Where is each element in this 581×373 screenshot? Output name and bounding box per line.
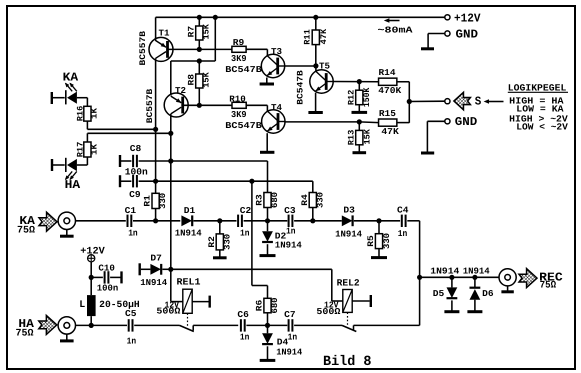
ground R2 (219, 250, 221, 258)
ground REC jack (507, 286, 509, 292)
capacitor C2 1n (237, 215, 239, 227)
jack REC (499, 269, 516, 286)
capacitor C5 1n (128, 319, 130, 331)
svg-text:R1: R1 (143, 195, 153, 207)
ground KA jack (66, 230, 68, 237)
wire R10 to T4 (246, 104, 267, 106)
svg-text:BC557B: BC557B (138, 31, 148, 65)
svg-text:R14: R14 (379, 68, 397, 78)
diode D7 1N914 (138, 263, 140, 275)
svg-text:R15: R15 (379, 109, 396, 119)
transistor T2 BC557B (170, 61, 172, 96)
svg-text:1n: 1n (240, 333, 250, 343)
svg-text:75Ω: 75Ω (17, 226, 35, 237)
svg-text:680: 680 (270, 192, 280, 208)
svg-text:1N914: 1N914 (463, 267, 491, 277)
resistor R4 330 (312, 181, 314, 192)
resistor R12 150K (358, 82, 360, 91)
svg-text:~80mA: ~80mA (378, 25, 414, 35)
wire T2 collector (170, 114, 172, 269)
svg-text:1n: 1n (127, 336, 137, 346)
svg-text:D6: D6 (482, 289, 494, 299)
wire L to HA line (90, 316, 92, 325)
wire T2 base (183, 104, 199, 106)
node L-HA (89, 323, 94, 328)
node D7-T2c (168, 267, 173, 272)
svg-text:R10: R10 (229, 94, 246, 104)
LED KA emission arrows (66, 83, 73, 91)
node R8 top (197, 58, 202, 63)
wire R9 to T3 (246, 48, 267, 50)
svg-text:1K: 1K (90, 107, 100, 119)
relay REL1 coil (170, 269, 172, 301)
svg-text:500Ω: 500Ω (156, 307, 181, 317)
resistor R13 15K (358, 122, 360, 130)
svg-text:R17: R17 (76, 142, 86, 158)
capacitor C3 1n (288, 215, 290, 227)
wire C4 to REC node (407, 220, 419, 222)
jack KA (58, 212, 75, 229)
resistor R8 15K (198, 61, 200, 74)
resistor R5 330 (378, 221, 380, 234)
wire REC line (420, 276, 499, 278)
wire bias drop (214, 17, 216, 61)
svg-text:+12V: +12V (454, 11, 481, 25)
ground GND-top (421, 47, 434, 50)
svg-text:C4: C4 (397, 206, 409, 216)
wire KA line (76, 220, 126, 222)
wire R14 right (359, 81, 378, 83)
ground R5 (378, 249, 380, 258)
wire to S terminal (409, 100, 445, 102)
svg-text:REL1: REL1 (177, 277, 201, 288)
svg-text:1n: 1n (240, 228, 250, 238)
relay REL2 coil (331, 269, 333, 301)
resistor R15 47K (379, 119, 397, 126)
capacitor C4 1n (401, 215, 403, 227)
wire T5 collector (333, 81, 359, 83)
svg-text:75Ω: 75Ω (16, 329, 34, 340)
svg-text:3K9: 3K9 (231, 110, 247, 120)
resistor R3 680 (267, 161, 269, 193)
svg-text:1n: 1n (288, 333, 298, 343)
svg-text:100n: 100n (97, 284, 119, 294)
svg-text:1N914: 1N914 (175, 228, 203, 238)
ground R12 (358, 105, 360, 113)
ground D5 (451, 300, 453, 311)
svg-text:47K: 47K (381, 127, 399, 137)
svg-text:R7: R7 (187, 26, 197, 37)
svg-text:1n: 1n (398, 229, 408, 239)
ground R13 (358, 145, 360, 153)
svg-text:BC557B: BC557B (145, 89, 155, 124)
svg-text:C10: C10 (98, 264, 115, 274)
svg-text:150K: 150K (362, 87, 372, 107)
svg-text:15K: 15K (202, 23, 212, 39)
LED HA (51, 159, 53, 171)
wire R16 to T1 collector (86, 121, 88, 129)
svg-text:T5: T5 (319, 62, 330, 72)
node S (407, 99, 412, 104)
resistor R10 3K9 (232, 102, 246, 108)
current arrow ~80mA (389, 20, 400, 22)
svg-text:GND: GND (456, 28, 479, 42)
svg-text:BC547B: BC547B (295, 70, 305, 105)
svg-text:R2: R2 (207, 236, 217, 248)
svg-text:R9: R9 (233, 38, 245, 48)
node C3-R4 (310, 218, 315, 223)
node rail-R7 (197, 15, 202, 20)
node T2-base (197, 103, 202, 108)
wire R17 to T2 collector (86, 133, 88, 142)
node T4-R13 (357, 119, 362, 124)
wire REL1 coil right (192, 301, 208, 303)
wire LED HA to R17 (77, 164, 88, 166)
svg-text:R11: R11 (302, 29, 312, 45)
wire T4 collector (285, 121, 359, 123)
svg-text:C9: C9 (129, 190, 141, 200)
REL2 switch contact (342, 325, 356, 331)
svg-text:C1: C1 (125, 206, 137, 216)
svg-text:D5: D5 (433, 289, 445, 299)
diode D2 1N914 (267, 221, 269, 231)
svg-text:15K: 15K (202, 71, 212, 87)
ground T5 (315, 93, 317, 113)
resistor R17 1K (84, 142, 91, 157)
svg-text:C7: C7 (284, 310, 296, 320)
svg-text:330: 330 (158, 193, 168, 209)
resistor R6 680 (251, 181, 253, 285)
resistor R9 3K9 (232, 46, 246, 52)
svg-text:R16: R16 (76, 106, 86, 122)
wire relay feed (171, 268, 332, 270)
wire +12V to L (90, 262, 92, 295)
node C2-R3-D2 (265, 218, 270, 223)
connector arrow S (454, 92, 471, 110)
svg-text:Bild 8: Bild 8 (323, 354, 372, 370)
wire C5 to REL1 contact (134, 324, 179, 326)
transistor T1 BC557B (155, 17, 157, 41)
terminal S (445, 99, 450, 104)
wire T1 base (168, 48, 232, 50)
wire HA line left (76, 324, 128, 326)
ground GND-mid (421, 152, 434, 155)
wire T1 collector (155, 58, 157, 193)
node R12-R14 (357, 79, 362, 84)
jack HA (58, 317, 75, 334)
svg-text:HA: HA (65, 178, 81, 192)
transistor T5 BC547B (315, 66, 317, 72)
svg-text:C3: C3 (284, 206, 296, 216)
REL1 switch contact (180, 325, 194, 331)
svg-text:1n: 1n (286, 227, 296, 237)
svg-text:T4: T4 (271, 103, 283, 113)
svg-text:47K: 47K (319, 28, 329, 44)
svg-text:330: 330 (223, 234, 233, 250)
terminal GND top (445, 31, 450, 36)
wire GND mid (427, 120, 444, 122)
svg-text:500Ω: 500Ω (316, 307, 341, 317)
svg-text:R6: R6 (255, 300, 265, 312)
node T1-base (197, 47, 202, 52)
connector arrow REC (519, 269, 537, 288)
svg-text:R13: R13 (347, 130, 357, 146)
ground HA jack (66, 334, 68, 341)
svg-text:LOGIKPEGEL: LOGIKPEGEL (508, 82, 567, 93)
REL1 contact actuator dotted (187, 313, 189, 326)
capacitor C6 1n (240, 319, 242, 331)
node rail-bias (213, 15, 218, 20)
wire LED KA to R16 (77, 97, 88, 99)
resistor R14 470K (379, 78, 397, 85)
svg-text:L: L (79, 300, 85, 311)
svg-text:GND: GND (455, 115, 478, 129)
svg-text:C5: C5 (125, 309, 137, 319)
svg-text:D3: D3 (343, 206, 355, 216)
svg-text:C6: C6 (237, 310, 249, 320)
node rail-R11 (313, 15, 318, 20)
svg-text:D1: D1 (184, 206, 196, 216)
wire REL2 to REC node (354, 324, 420, 326)
node D3-R5 (376, 218, 381, 223)
resistor R7 15K (198, 17, 200, 26)
svg-text:R3: R3 (255, 194, 265, 206)
transistor T4 BC547B (262, 110, 285, 133)
ground D6 (474, 300, 476, 312)
svg-text:REL2: REL2 (337, 278, 360, 289)
svg-text:1N914: 1N914 (276, 347, 303, 357)
resistor R16 1K (84, 106, 91, 121)
wire +12V rail (156, 16, 445, 18)
annotation arrow to S (484, 99, 489, 103)
svg-text:1N914: 1N914 (275, 241, 303, 251)
svg-text:S: S (475, 95, 482, 109)
svg-text:330: 330 (382, 233, 392, 249)
resistor R1 330 (152, 193, 159, 208)
svg-text:R8: R8 (187, 74, 197, 86)
svg-text:1N914: 1N914 (430, 267, 460, 277)
svg-text:LOW < ~2V: LOW < ~2V (516, 121, 568, 132)
wire REL2 coil right (352, 300, 369, 302)
wire T3 collector (285, 65, 316, 67)
capacitor C9 100n (119, 175, 121, 187)
capacitor C10 100n (91, 276, 103, 278)
LED HA emission arrows (66, 171, 73, 179)
svg-text:BC547B: BC547B (225, 65, 262, 75)
ground T4 (266, 133, 268, 152)
REL2 contact actuator dotted (347, 312, 349, 326)
diode D1 1N914 (181, 215, 192, 226)
diode D4 1N914 (267, 325, 269, 333)
node KA-R1 (153, 218, 158, 223)
svg-text:R4: R4 (300, 194, 310, 206)
node C9-T1c (153, 179, 158, 184)
svg-text:C8: C8 (130, 144, 142, 154)
svg-text:R12: R12 (347, 90, 357, 106)
capacitor C7 1n (288, 319, 290, 331)
wire C7 to REL2 (294, 324, 342, 326)
capacitor C1 1n (127, 215, 129, 227)
svg-text:C2: C2 (240, 206, 252, 216)
svg-text:1K: 1K (90, 143, 100, 155)
inductor L 20-50uH (87, 295, 96, 316)
svg-text:470K: 470K (378, 86, 402, 96)
svg-text:R5: R5 (366, 235, 376, 247)
svg-text:KA: KA (63, 70, 79, 84)
svg-text:D7: D7 (150, 253, 162, 263)
svg-text:15K: 15K (362, 128, 372, 144)
svg-text:330: 330 (316, 192, 326, 208)
node REC (417, 275, 422, 280)
svg-text:1N914: 1N914 (335, 229, 363, 239)
ground D2 (267, 244, 269, 255)
svg-text:T3: T3 (271, 47, 282, 57)
svg-text:75Ω: 75Ω (540, 281, 557, 292)
resistor R2 330 (219, 221, 221, 234)
svg-text:680: 680 (270, 298, 280, 314)
transistor T3 BC547B (261, 54, 284, 77)
svg-text:1n: 1n (128, 228, 138, 238)
node D1-R2 (217, 218, 222, 223)
svg-text:T1: T1 (159, 28, 171, 38)
node R6-D4 (265, 323, 270, 328)
node T3-T5 (313, 63, 318, 68)
wire T2 base to R10 (199, 104, 232, 106)
node C8-T2c (168, 158, 173, 163)
wire GND top (428, 33, 445, 35)
ground T3 (266, 78, 268, 85)
node C9-R6 (249, 179, 254, 184)
wire R15 (359, 121, 378, 124)
node C10 (89, 275, 94, 280)
node T2c-R17 (168, 131, 173, 136)
node T1c-R16 (153, 127, 158, 132)
ground D4 (267, 346, 269, 360)
diode D3 1N914 (342, 215, 353, 226)
svg-text:BC547B: BC547B (225, 121, 262, 131)
terminal GND mid (445, 119, 450, 124)
svg-text:T2: T2 (175, 86, 186, 96)
svg-text:3K9: 3K9 (231, 54, 247, 64)
resistor R11 47K (315, 17, 317, 30)
terminal +12V (445, 15, 450, 20)
wire REL1 to C6 (193, 324, 238, 326)
svg-text:1N914: 1N914 (140, 278, 168, 288)
